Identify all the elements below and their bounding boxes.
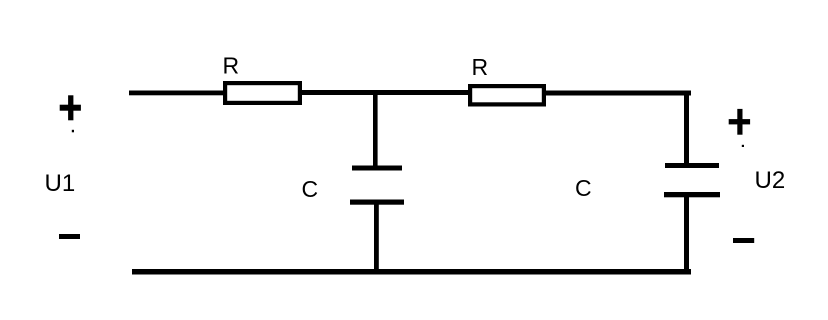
svg-text:R: R (472, 54, 489, 80)
svg-text:U1: U1 (45, 170, 76, 197)
wire: bottom rail (132, 269, 691, 275)
resistor R2 (box) (468, 84, 546, 107)
svg-text:C: C (575, 175, 592, 201)
resistor R1 (box) (223, 81, 302, 105)
wire: top-left segment from U1+ to R1 (129, 91, 225, 96)
wire: C1 vertical from bottom plate to ground rail (374, 204, 379, 275)
minus sign (U2 negative terminal) (733, 238, 754, 243)
stray dot below right plus (742, 145, 744, 147)
wire: R2 to top-right corner (546, 91, 691, 96)
wire: R1 to R2 top segment (302, 90, 469, 95)
svg-text:R: R (223, 53, 240, 79)
capacitor C1 top plate (352, 166, 402, 171)
capacitor C1 bottom plate (350, 200, 404, 205)
plus sign (U1 positive terminal) (68, 95, 73, 120)
svg-text:C: C (302, 176, 319, 202)
svg-text:U2: U2 (755, 167, 786, 194)
stray dot below left plus (72, 130, 74, 133)
plus sign (U2 positive terminal) (737, 109, 742, 135)
wire: C1 vertical from node A down to top plate (373, 94, 378, 166)
wire: right vertical from C2 bottom plate to bottom rail (684, 197, 689, 274)
capacitor C2 bottom plate (664, 192, 720, 197)
capacitor C2 top plate (665, 163, 719, 168)
minus sign (U1 negative terminal) (59, 234, 80, 239)
wire: right vertical from corner down to C2 top plate (684, 91, 689, 165)
